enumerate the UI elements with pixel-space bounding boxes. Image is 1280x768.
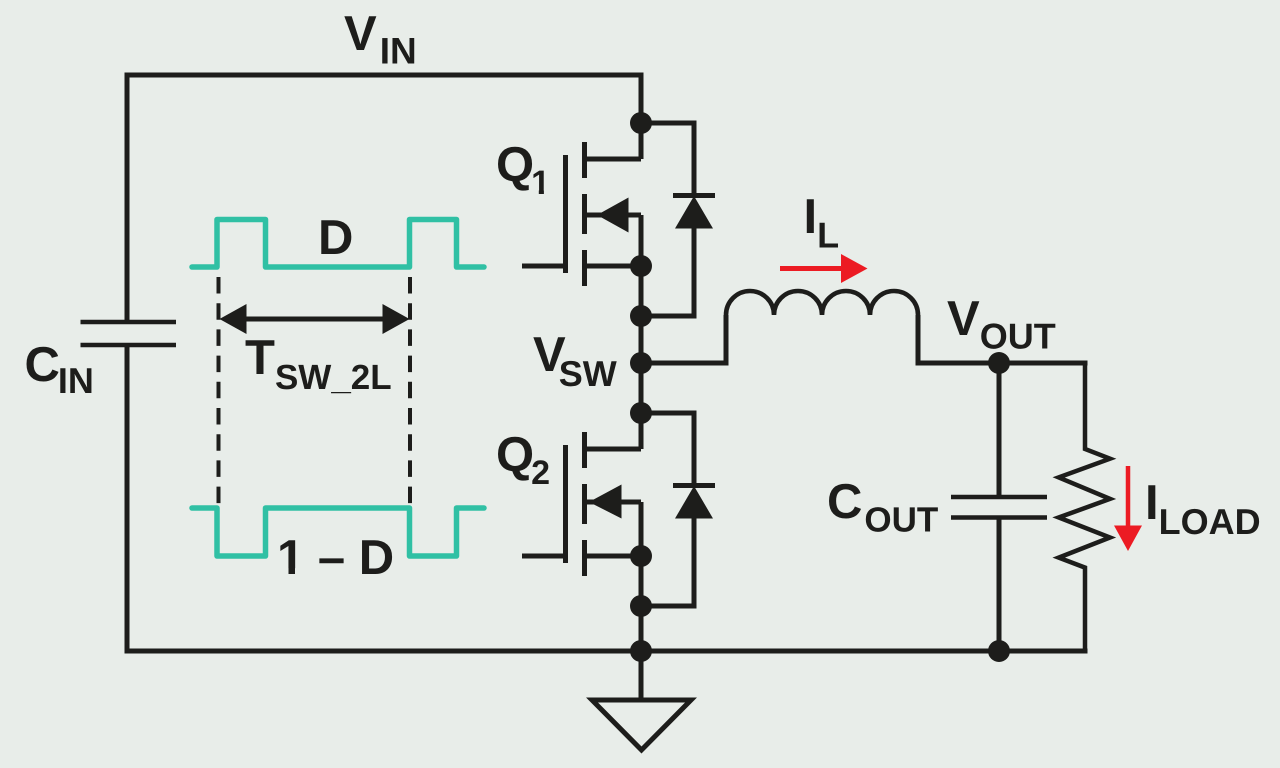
node: D2 anode junction	[630, 595, 652, 617]
node: Q2 drain junction	[630, 402, 652, 424]
wire: top VIN rail	[127, 73, 644, 78]
diode D1 (Q1 body diode)	[641, 123, 715, 316]
wire: left rail lower	[125, 345, 130, 651]
node: ground junction	[630, 640, 652, 662]
svg-text:D: D	[318, 211, 353, 265]
inductor L	[726, 291, 918, 315]
ground	[592, 651, 691, 750]
wire: left rail upper	[125, 73, 130, 323]
transistor Q2	[522, 432, 641, 576]
transistor Q1	[522, 142, 641, 286]
dashed marker right	[408, 277, 412, 508]
node: Q1 drain junction	[630, 112, 652, 134]
capacitor CIN	[81, 322, 177, 345]
arrow ILOAD (red)	[1114, 466, 1142, 551]
wire: inductor to VOUT and load	[918, 315, 1088, 363]
node VOUT	[988, 352, 1010, 374]
dimension arrow TSW	[220, 304, 410, 334]
arrow IL (red)	[780, 254, 868, 283]
node: Q1 source junction	[630, 255, 652, 277]
waveform D (gate drive)	[192, 220, 484, 268]
wires: input loop and main rail	[125, 73, 1088, 701]
dashed marker left	[217, 277, 221, 508]
node: COUT ground junction	[988, 640, 1010, 662]
wire: main rail top segment	[639, 75, 644, 159]
wire: bottom ground rail	[125, 649, 1088, 654]
transistor Q1 body arrow	[597, 198, 629, 233]
node: Q2 source junction	[630, 545, 652, 567]
capacitor COUT	[951, 363, 1047, 651]
wire: main rail bottom segment	[639, 502, 644, 700]
node: D1 anode junction	[630, 305, 652, 327]
node VSW	[630, 352, 652, 374]
wire: VSW to inductor	[641, 315, 726, 363]
svg-text:1 – D: 1 – D	[277, 531, 394, 585]
wire: main rail middle segment	[639, 215, 644, 449]
diode D2 (Q2 body diode)	[641, 413, 715, 606]
waveform 1-D (gate drive)	[192, 508, 484, 556]
transistor Q2 body arrow	[589, 485, 622, 519]
resistor RLOAD	[1059, 363, 1110, 651]
